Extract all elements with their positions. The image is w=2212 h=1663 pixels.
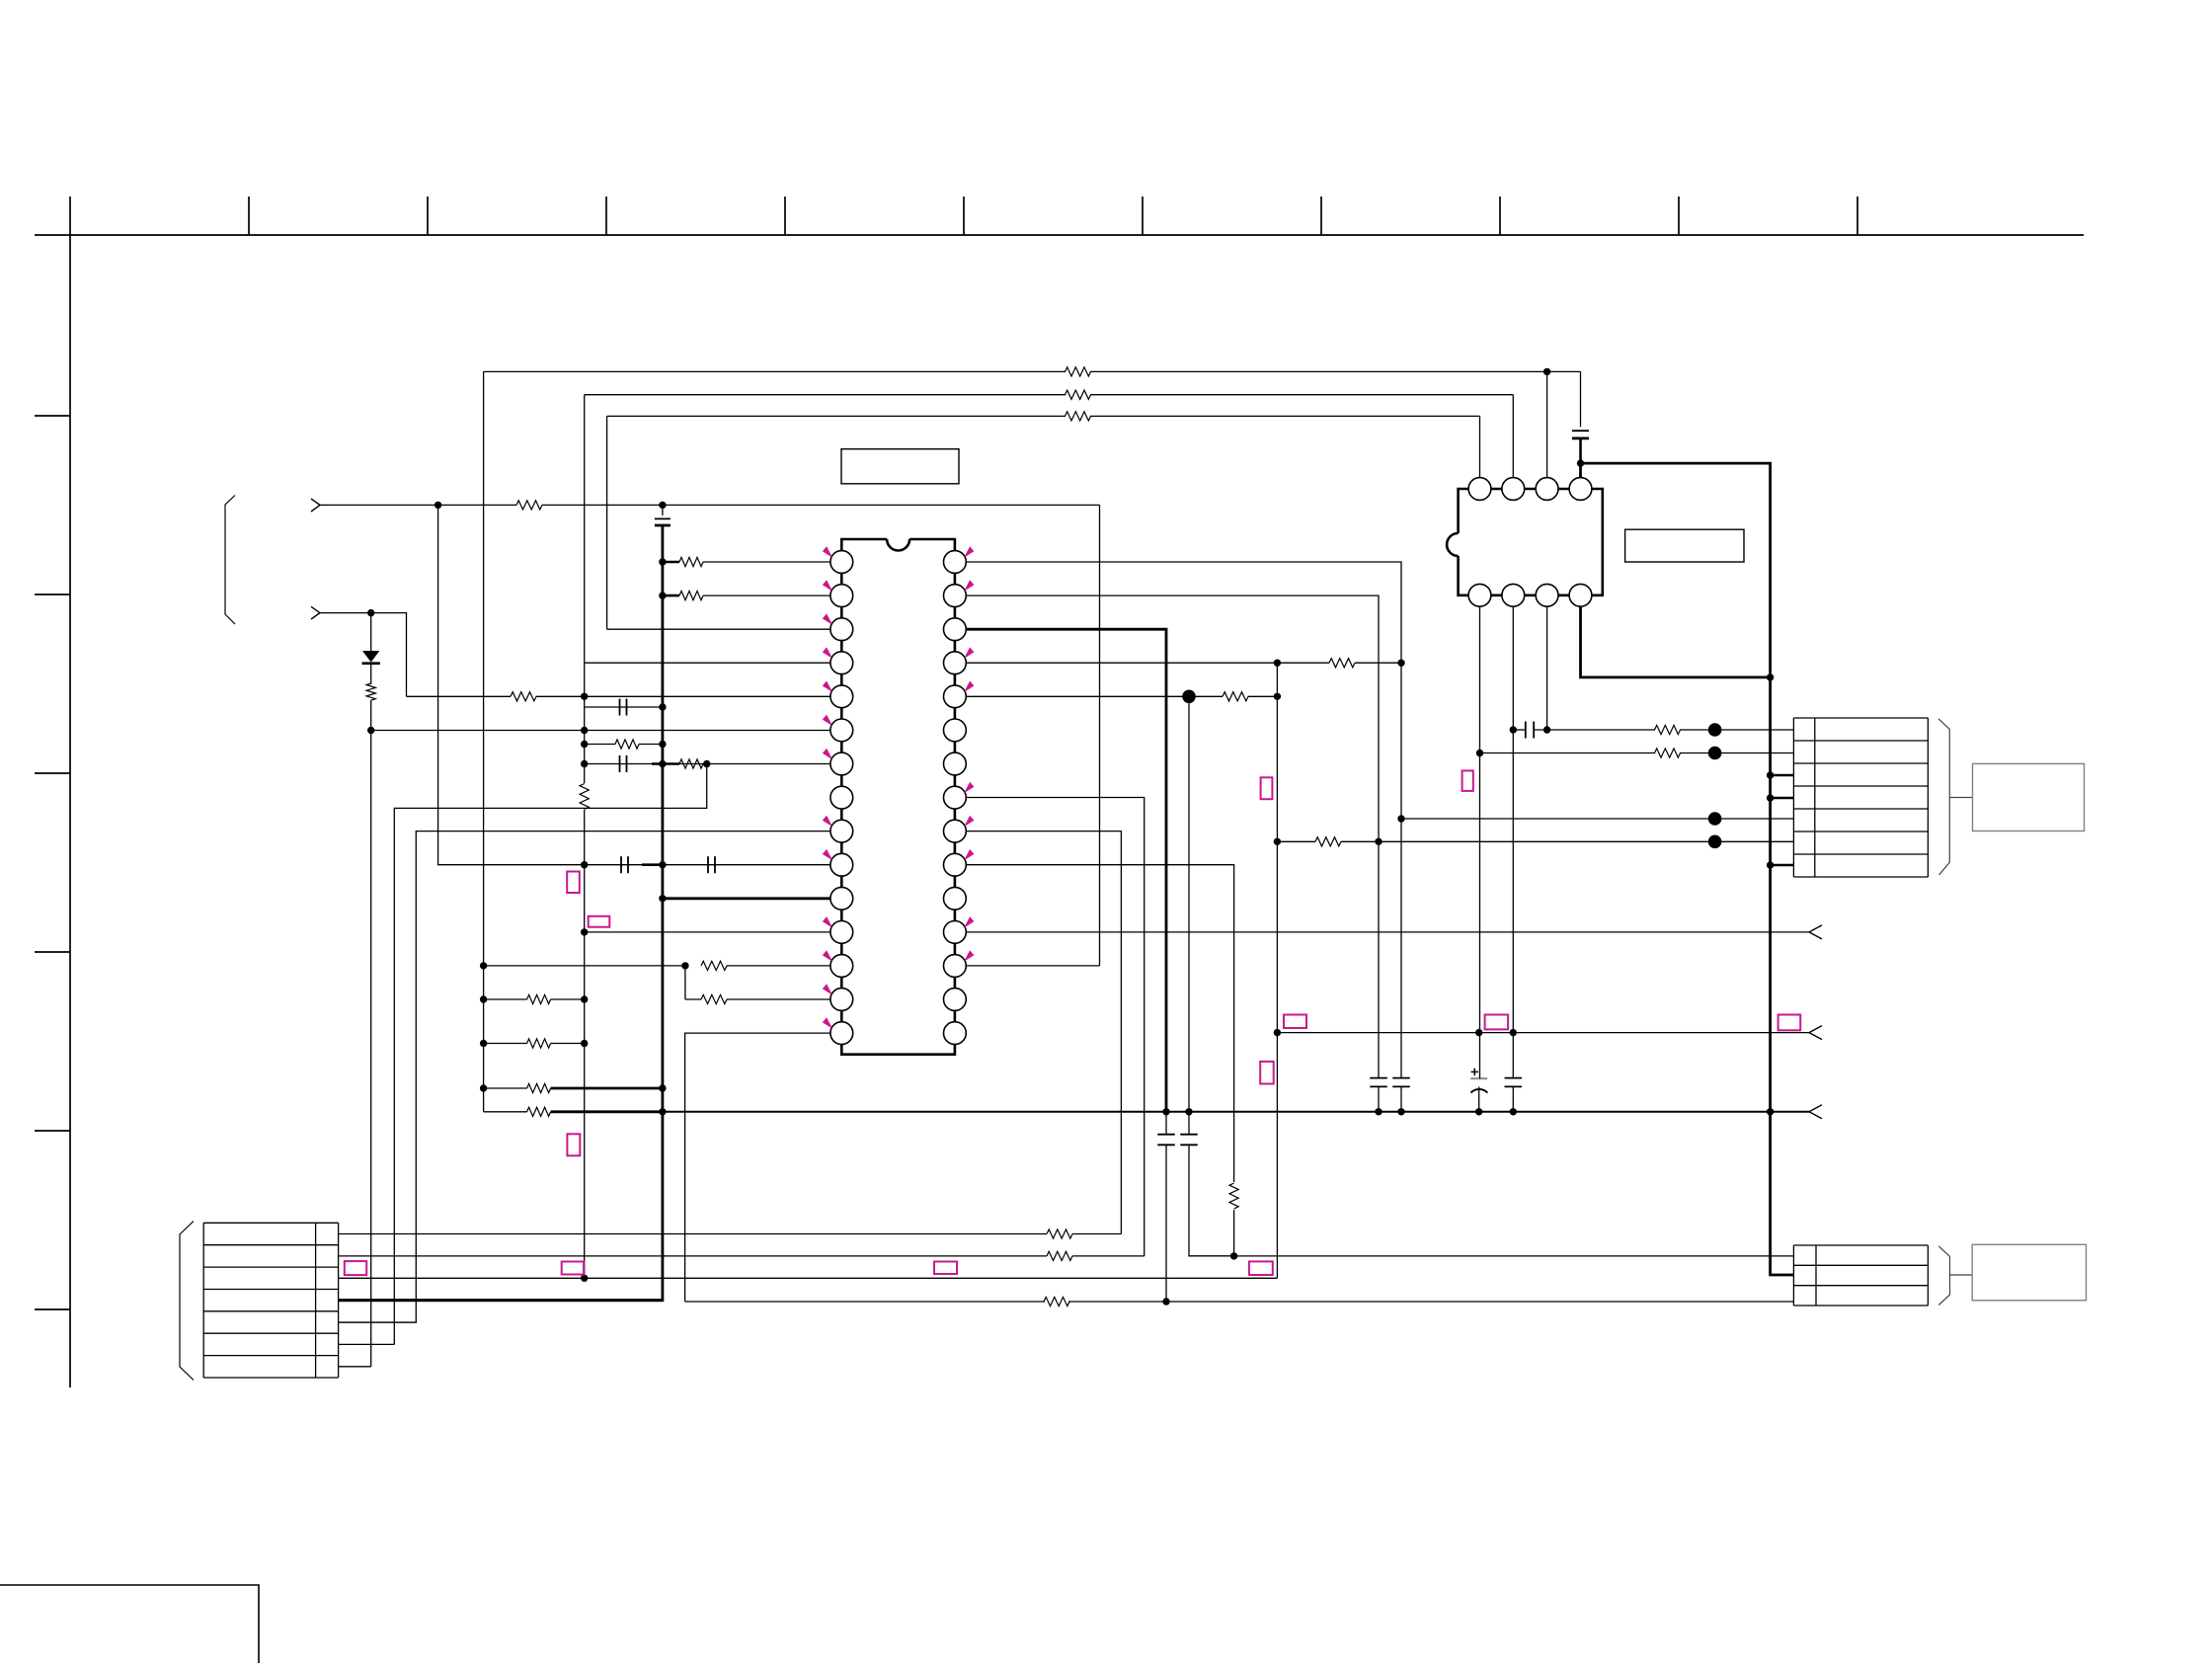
resistor R-L2 [663, 594, 679, 597]
wire motor row3 [339, 1277, 1278, 1279]
IC U1 body [841, 539, 955, 1055]
CN3 bracket [1938, 1246, 1949, 1306]
junction row6 big [1708, 835, 1722, 849]
junction cm2-top [1185, 1108, 1192, 1115]
capacitor C-m2 [1180, 1134, 1198, 1136]
bus wire x671 (thick) [339, 525, 663, 1301]
capacitor C-r2 [1400, 663, 1402, 1077]
page frame top ruler ticks [248, 197, 250, 235]
wire pin L10 from IN1 [438, 505, 830, 864]
capacitor C-u2 [1580, 371, 1582, 427]
wire pin L6 [371, 730, 830, 732]
junction row1 big [1708, 723, 1722, 737]
capacitor C-row1 [1525, 722, 1527, 739]
CN2 bracket [1938, 719, 1949, 875]
capacitor C-r1 [1378, 841, 1380, 1077]
output arrow OUT2 [1809, 1026, 1822, 1040]
wire vert x1204 [1188, 696, 1190, 1112]
wire pin R3 (thick) [966, 629, 1166, 1112]
CN3 box [1972, 1244, 2086, 1301]
wire pin R12 out [966, 931, 1809, 933]
resistor R-d [366, 683, 375, 700]
wire pin R5 [966, 695, 1223, 697]
junction row6a [1274, 838, 1281, 845]
connector CN3 (bottom right) [1793, 1244, 1928, 1246]
IC U1 pin arrows [823, 546, 832, 558]
marker TP4 [345, 1261, 366, 1275]
wire u2 pin2b [1512, 606, 1514, 1077]
junction bus pin L2 [659, 592, 666, 598]
junction row5a [1397, 815, 1404, 822]
junction cr2 [1397, 1108, 1404, 1115]
wire IN2 jog [371, 613, 407, 697]
resistor R-row6 [1277, 840, 1315, 842]
wire vert x614 [606, 416, 608, 629]
junction lr2b [581, 1040, 588, 1047]
wire vert x375 to motor row7 [370, 731, 372, 1367]
wire pin L14 [684, 966, 686, 999]
junction row2 big [1708, 747, 1722, 760]
junction L6 [581, 727, 588, 734]
marker TP2 [589, 916, 610, 927]
wire pin R13 [966, 965, 1100, 967]
wire vert x591 [584, 395, 586, 783]
page frame left ruler ticks [35, 415, 70, 417]
wire net1 drop pin3 [1546, 371, 1548, 477]
wire pin L12 [585, 931, 830, 933]
junction rail1126 bus [1767, 1108, 1774, 1115]
bus stub row7 [1771, 864, 1794, 867]
junction IN1-B [659, 502, 666, 509]
capacitor C-r3 [1505, 1077, 1523, 1079]
resistor ladder r1 [484, 998, 527, 1000]
capacitor C-x591a [585, 706, 663, 708]
capacitor C-in1 [662, 505, 664, 515]
input bracket [225, 496, 235, 625]
wire pin R8 [966, 798, 1145, 1256]
junction L7a [581, 760, 588, 767]
junction D1-R [367, 727, 374, 734]
resistor R-in1 [516, 501, 542, 510]
page frame left ruler [69, 197, 71, 1387]
junction cr3 [1510, 1108, 1517, 1115]
wire IN1 drop [1099, 505, 1101, 966]
wire rail y1046 [1277, 1032, 1809, 1034]
marker TP13 [1249, 1261, 1273, 1275]
capacitor C-m1 [1157, 1134, 1175, 1136]
title block [0, 1585, 259, 1663]
capacitor C-L10b [707, 856, 709, 873]
CN1 bracket [180, 1222, 194, 1381]
resistor ladder r3 [484, 1087, 527, 1089]
output arrow OUT1 [1809, 925, 1822, 939]
marker TP8 [1462, 770, 1473, 791]
wire u2 pin1b [1479, 606, 1481, 1078]
wire u2 vdd loop (thick) [1579, 463, 1582, 478]
junction u2p1-row2 [1476, 750, 1483, 756]
resistor R-L7 [679, 759, 703, 768]
marker TP9 [1260, 1062, 1274, 1084]
thick stub L10 [642, 863, 663, 866]
CN3 stub wire [1950, 1274, 1973, 1276]
wire pin L4 [585, 662, 830, 664]
wire row6 entry [1715, 840, 1794, 842]
wire net2 top [585, 394, 1066, 396]
IC U1 pin circles [830, 551, 853, 574]
junction cm1-top [1162, 1108, 1169, 1115]
junction R5b [1274, 693, 1281, 700]
junction IN2-A [367, 609, 374, 616]
junction rail1046-a [1274, 1029, 1281, 1036]
marker TP7 [1261, 777, 1273, 799]
junction x591-row3 [581, 1275, 588, 1282]
wire motor row5 [339, 1321, 417, 1323]
marker TP1 [567, 872, 580, 894]
junction cm1-bot [1162, 1298, 1169, 1305]
junction lr4b [659, 1108, 666, 1115]
junction L11-bus [659, 895, 666, 902]
capacitor C-el (electrolytic) [1470, 1077, 1487, 1079]
wire pin L7 [585, 763, 830, 765]
junction L10-bus [659, 861, 666, 868]
wire pin L11 (thick) [663, 897, 830, 900]
wire motor row1 [339, 1233, 1047, 1235]
resistor ladder r2 [484, 1043, 527, 1045]
junction x591-bus-a [659, 703, 666, 710]
wire u2 pin4b (thick) [1581, 606, 1771, 677]
junction L7-bus [659, 760, 666, 767]
capacitor C-L10a [620, 856, 622, 873]
page frame top ruler [35, 234, 2084, 236]
IC U2 label box [1625, 529, 1744, 562]
capacitor C-L7 [619, 755, 621, 772]
wire motor row6 [339, 1343, 395, 1345]
junction x591b [581, 741, 588, 748]
wire IN1 [320, 504, 438, 506]
junction bus pin L1 [659, 558, 666, 565]
wire pin L8 net jog [394, 764, 706, 1345]
output arrow OUT3 [1809, 1105, 1822, 1119]
marker TP5 [562, 1262, 584, 1275]
IC U2 body [1459, 489, 1603, 595]
wire GND rail y1126 [663, 1111, 1809, 1113]
junction lr1b [581, 995, 588, 1002]
junction u2p2-row1 [1510, 726, 1517, 733]
wire motor row7 [339, 1366, 371, 1368]
junction lr1a [480, 995, 487, 1002]
IC U2 pin circles [1468, 478, 1491, 501]
junction L12 [581, 928, 588, 935]
resistor R-x1249 [1229, 1183, 1238, 1209]
wire pin L13 [484, 965, 685, 967]
resistor R-x591 [585, 744, 615, 746]
junction lr3a [480, 1084, 487, 1091]
wire pin R1 [966, 562, 1401, 663]
junction x591-bus-b [659, 741, 666, 748]
input arrow IN1 [311, 499, 320, 512]
resistor R-row2 [1480, 752, 1656, 754]
junction rail1046-c [1510, 1029, 1517, 1036]
marker TP6 [934, 1262, 957, 1275]
CN2 box [1973, 763, 2085, 831]
marker TP10 [1284, 1015, 1306, 1029]
wire net1 top [484, 370, 1066, 372]
junction rail1046-b [1475, 1029, 1482, 1036]
junction cr1 [1375, 1108, 1382, 1115]
wire pin R9 [966, 831, 1121, 1234]
connector CN2 (right middle) [1793, 717, 1928, 719]
wire u2 pin3b [1546, 606, 1548, 730]
wire motor row4 (thick) [339, 1299, 663, 1302]
junction row6b [1375, 838, 1382, 845]
wire CN3 row1 [1189, 1255, 1793, 1257]
bus stub row4 [1771, 797, 1794, 800]
wire row5 [1401, 818, 1793, 820]
marker TP11 [1485, 1015, 1509, 1030]
junction L5 [581, 693, 588, 700]
junction R4a [1274, 660, 1281, 667]
junction lr3b [659, 1084, 666, 1091]
IC U1 label box [841, 449, 959, 484]
junction u2 vdd [1577, 459, 1584, 466]
junction L10a [581, 861, 588, 868]
junction L13a [480, 962, 487, 969]
diode D1 [370, 613, 372, 651]
wire motor row2 [339, 1255, 1047, 1257]
wire pin L9 [339, 831, 830, 1323]
junction u2p4-bus [1767, 673, 1774, 680]
resistor R-L1 [663, 561, 679, 564]
junction IN1-A [434, 502, 441, 509]
input arrow IN2 [311, 606, 320, 619]
junction lr2a [480, 1040, 487, 1047]
wire IN2 [320, 612, 371, 614]
resistor ladder r4 [484, 1111, 527, 1113]
wire CN3 row3 [685, 1301, 1045, 1303]
junction L7b [703, 760, 710, 767]
junction R5 (big) [1182, 690, 1196, 704]
CN2 stub wire [1949, 797, 1972, 799]
resistor R-x591v [580, 784, 589, 810]
wire pin R10 [966, 865, 1234, 1182]
junction cel [1475, 1108, 1482, 1115]
marker TP12 [1778, 1015, 1801, 1031]
wire row1 [1513, 729, 1526, 731]
junction u2p3-row1 [1543, 726, 1550, 733]
junction R4b [1397, 660, 1404, 667]
connector CN1 (motor) [203, 1222, 338, 1224]
junction row5 big [1708, 812, 1722, 826]
wire pin L3 [607, 628, 830, 630]
wire vert x489 [483, 371, 485, 1111]
wire IN1 to right [663, 504, 1100, 506]
junction cm2-bot [1230, 1252, 1237, 1259]
wire pin R2 [966, 595, 1379, 841]
bus stub row3 [1771, 774, 1794, 777]
wire pin R4 [966, 662, 1329, 664]
junction L13b [681, 962, 688, 969]
marker TP3 [567, 1134, 580, 1155]
wire pin L15 [685, 1033, 830, 1302]
wire vert x1293 [1276, 663, 1278, 1278]
wire pin L5 [407, 695, 512, 697]
wire net3 top [607, 415, 1066, 417]
junction net1 [1543, 368, 1550, 375]
